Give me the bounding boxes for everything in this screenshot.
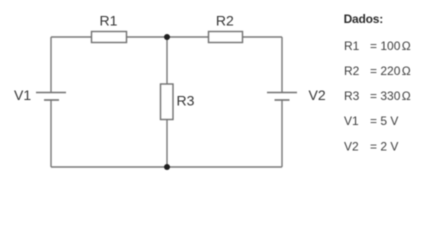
wire right side lower bbox=[281, 100, 283, 167]
svg-text:R3= 330 Ω: R3= 330 Ω bbox=[344, 89, 411, 103]
svg-text:R1= 100 Ω: R1= 100 Ω bbox=[344, 39, 411, 53]
resistor R1 bbox=[92, 13, 127, 43]
wire left side lower bbox=[50, 100, 52, 167]
resistor R3 bbox=[161, 84, 195, 120]
wire top-middle segment bbox=[127, 36, 209, 38]
wire bottom segment bbox=[51, 166, 282, 168]
svg-text:V2: V2 bbox=[309, 87, 326, 103]
wire R3 branch upper bbox=[166, 37, 168, 84]
svg-text:V1: V1 bbox=[14, 87, 31, 103]
svg-text:V1= 5 V: V1= 5 V bbox=[344, 114, 398, 128]
svg-text:R2: R2 bbox=[216, 13, 234, 29]
wire R3 branch lower bbox=[166, 120, 168, 168]
svg-text:R1: R1 bbox=[100, 13, 118, 29]
wire top-right segment bbox=[243, 36, 283, 38]
wire right side upper bbox=[281, 37, 283, 93]
wire top-left segment bbox=[51, 36, 92, 38]
resistor R2 bbox=[209, 13, 243, 43]
svg-text:V2= 2 V: V2= 2 V bbox=[344, 139, 398, 153]
svg-text:R3: R3 bbox=[177, 93, 195, 109]
battery V1 bbox=[14, 87, 66, 103]
wire left side upper bbox=[50, 37, 52, 93]
node junction bottom bbox=[164, 164, 170, 170]
svg-text:Dados:: Dados: bbox=[344, 12, 383, 26]
svg-text:R2= 220 Ω: R2= 220 Ω bbox=[344, 64, 411, 78]
node junction top bbox=[164, 34, 170, 40]
battery V2 bbox=[267, 87, 326, 103]
